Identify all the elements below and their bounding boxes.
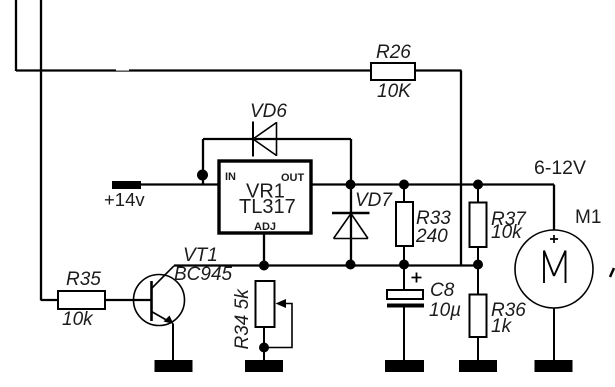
svg-text:10k: 10k <box>62 309 94 330</box>
junction node VD7 bottom <box>346 260 356 270</box>
svg-text:VT1: VT1 <box>183 245 218 266</box>
junction node C8 top <box>399 260 409 270</box>
wire ADJ rail <box>174 264 478 266</box>
svg-text:6-12V: 6-12V <box>534 157 586 179</box>
stray mark right edge <box>610 268 614 277</box>
wire ADJ pin <box>263 233 265 266</box>
wire VD6 left drop <box>202 139 204 185</box>
junction node R33 top <box>399 180 409 190</box>
ground M1 <box>535 360 573 372</box>
diode VD7 <box>332 190 393 239</box>
ground VT1 <box>155 360 193 372</box>
capacitor C8 <box>387 266 461 361</box>
wire motor feed <box>553 185 555 231</box>
svg-text:R34 5k: R34 5k <box>232 288 253 350</box>
wire VD6 horizontal <box>203 138 351 140</box>
junction node R37 top <box>473 180 483 190</box>
+14v terminal <box>104 181 145 210</box>
svg-text:1k: 1k <box>491 316 513 337</box>
svg-text:R26: R26 <box>376 42 411 63</box>
wire left bus vertical <box>40 0 42 301</box>
svg-text:VD7: VD7 <box>355 190 393 211</box>
svg-text:+14v: +14v <box>104 189 145 210</box>
svg-text:R35: R35 <box>66 269 101 290</box>
svg-text:ADJ: ADJ <box>254 221 276 233</box>
wire VD6/VD7 right vertical <box>350 139 352 266</box>
resistor R35 <box>58 269 105 330</box>
ground C8 <box>385 360 424 372</box>
svg-text:TL317: TL317 <box>239 196 296 218</box>
resistor R37 <box>470 185 528 295</box>
wire top horizontal to R26 <box>16 69 371 71</box>
svg-text:10K: 10K <box>377 81 412 102</box>
junction node OUT/VD7 <box>346 180 356 190</box>
wire R26 to corner <box>415 69 462 71</box>
wire top-left vertical <box>15 0 17 71</box>
resistor R36 <box>470 295 527 361</box>
resistor R26 <box>371 42 415 102</box>
svg-text:10µ: 10µ <box>429 300 461 321</box>
ground R34 <box>245 360 283 372</box>
motor M1 <box>515 207 601 360</box>
regulator VR1 <box>219 161 311 233</box>
wire +14v to VR1 IN <box>141 183 219 185</box>
wire VR1 OUT rail <box>311 183 554 185</box>
ground R36 <box>459 360 497 372</box>
wire R35 to base <box>105 299 152 301</box>
junction node R36 top <box>473 260 483 270</box>
potentiometer R34 <box>232 281 292 360</box>
transistor VT1 <box>134 245 233 360</box>
svg-text:M1: M1 <box>575 207 601 228</box>
junction node R34 top <box>259 261 269 271</box>
svg-text:BC945: BC945 <box>174 264 233 285</box>
svg-text:VD6: VD6 <box>250 101 287 122</box>
diode VD6 <box>250 101 287 157</box>
svg-text:IN: IN <box>225 171 236 183</box>
svg-text:240: 240 <box>415 226 448 247</box>
wire left bus to R35 <box>41 299 58 301</box>
svg-text:C8: C8 <box>430 280 455 301</box>
resistor R33 <box>396 185 451 266</box>
wire feedback vertical <box>460 71 462 266</box>
notch on top wire <box>116 68 129 71</box>
svg-text:10k: 10k <box>491 222 523 243</box>
junction node IN <box>197 170 208 181</box>
